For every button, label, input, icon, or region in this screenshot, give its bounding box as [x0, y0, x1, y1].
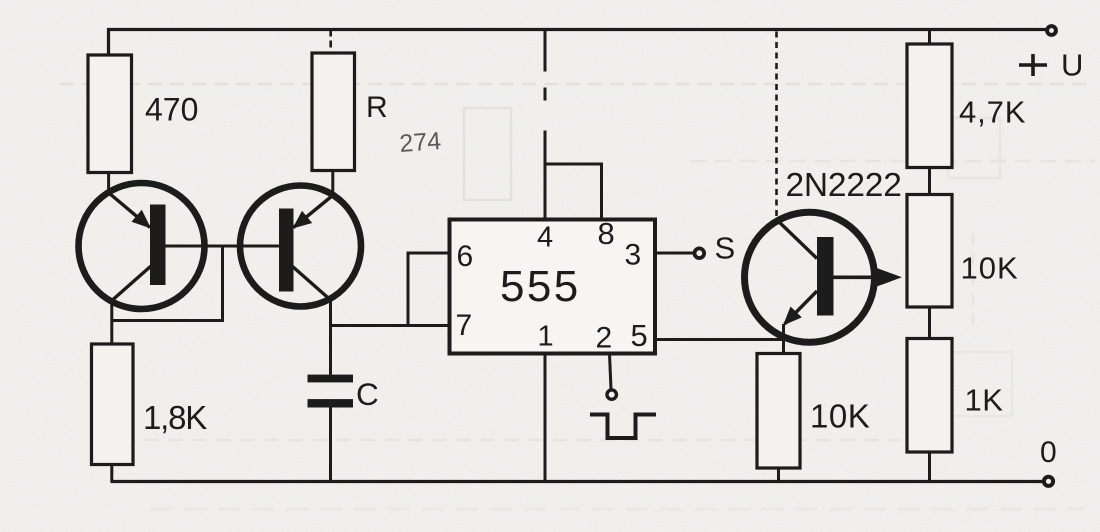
wire node Q1-emitter to base line (L)	[112, 246, 223, 321]
transistor Q3 collector lead	[777, 220, 818, 259]
terminal S	[695, 248, 705, 258]
wire node C to 555 pin 7	[331, 324, 450, 327]
transistor Q1 circle	[79, 183, 205, 309]
wire Q2 emitter to capacitor	[329, 298, 332, 375]
resistor 10K lower	[757, 354, 800, 469]
transistor Q2 emitter lead	[292, 266, 330, 300]
ghost bleed-through band right	[690, 160, 1095, 162]
transistor Q1 base bar	[150, 205, 166, 286]
transistor Q3 2N2222 circle	[745, 212, 875, 342]
transistor Q2 arrow	[293, 211, 313, 229]
capacitor C bottom plate	[308, 399, 354, 407]
transistor Q1 collector lead	[110, 194, 151, 228]
svg-text:1K: 1K	[965, 383, 1004, 418]
wire 470 to Q1 collector	[107, 173, 110, 197]
svg-text:U: U	[1061, 48, 1083, 83]
svg-text:4,7K: 4,7K	[959, 95, 1026, 130]
label +U plus sign	[1019, 54, 1047, 76]
resistor 10K right	[907, 195, 952, 308]
IC 555 box	[450, 220, 656, 354]
svg-text:8: 8	[598, 216, 615, 251]
svg-text:6: 6	[457, 240, 474, 273]
dashed wire rail to Q3 collector	[775, 32, 778, 218]
wire rail to pin 4	[544, 30, 547, 220]
svg-text:S: S	[715, 231, 736, 266]
pulse symbol	[590, 415, 656, 439]
transistor Q2 base bar	[279, 209, 294, 292]
terminal pin 2	[607, 390, 616, 399]
transistor Q3 base bar	[817, 237, 834, 316]
wire 4,7K to 10K	[928, 168, 931, 195]
wire base line Q1-Q2	[166, 245, 280, 248]
wire pin 1 to 0 rail	[544, 354, 547, 482]
ghost vertical right	[972, 233, 974, 332]
svg-text:3: 3	[625, 239, 642, 272]
wire 555 pin 6 jog	[408, 253, 450, 326]
wire Q3 emitter down	[782, 324, 785, 354]
resistor 1K	[907, 339, 952, 453]
svg-text:274: 274	[398, 127, 442, 158]
wire rail to R	[329, 30, 332, 54]
ghost bleed-through band bottom	[150, 508, 1085, 511]
terminal 0	[1044, 477, 1053, 486]
svg-text:10K: 10K	[810, 398, 870, 435]
svg-text:C: C	[356, 376, 379, 412]
wire Q1 emitter to 1.8K	[110, 298, 113, 344]
wire pin 8 jog	[545, 164, 602, 220]
svg-text:555: 555	[500, 262, 581, 311]
ghost bleed-through band top	[60, 83, 1093, 86]
transistor Q1 arrow	[132, 210, 152, 229]
wire 10K lower to 0 rail	[777, 468, 780, 482]
svg-text:1: 1	[538, 321, 554, 353]
wire pin 3 to S	[655, 252, 694, 255]
resistor 1,8K	[92, 344, 134, 465]
svg-text:2N2222: 2N2222	[786, 167, 902, 204]
wire pin 2 stub	[610, 354, 612, 390]
bottom 0 rail	[111, 480, 1044, 483]
wire pin 5 to Q3 emitter node	[655, 338, 784, 341]
terminal +U	[1047, 26, 1056, 35]
transistor Q1 emitter lead	[113, 266, 151, 300]
svg-text:5: 5	[631, 318, 648, 353]
wire rail to 4,7K	[928, 30, 931, 45]
transistor Q3 emitter arrow	[783, 307, 802, 326]
ghost rectangle left of 555	[464, 108, 511, 200]
svg-text:0: 0	[1040, 436, 1057, 469]
transistor Q3 output arrow head	[876, 268, 902, 287]
wire capacitor to 0 rail	[329, 408, 332, 482]
svg-text:1,8K: 1,8K	[143, 399, 207, 436]
ghost rectangle bottom right	[952, 352, 1012, 416]
svg-text:2: 2	[596, 322, 613, 355]
svg-text:10K: 10K	[961, 251, 1019, 286]
svg-text:7: 7	[456, 309, 473, 342]
resistor R	[312, 53, 355, 171]
wire 1K to 0 rail	[928, 452, 931, 482]
transistor Q2 collector lead	[294, 196, 333, 228]
wire 1.8K to 0 rail	[110, 465, 113, 482]
wire R to Q2 collector	[331, 171, 334, 199]
transistor Q3 emitter lead	[785, 291, 818, 324]
transistor Q2 circle	[240, 186, 361, 307]
transistor Q3 output arrow shaft	[834, 275, 879, 279]
svg-text:R: R	[366, 91, 388, 124]
wire 10K to 1K	[928, 307, 931, 339]
svg-text:4: 4	[537, 222, 553, 254]
ghost rectangle top right	[948, 118, 1000, 178]
resistor 4,7K	[907, 44, 952, 168]
capacitor C top plate	[308, 375, 354, 383]
resistor 470	[88, 55, 132, 173]
top +U supply rail	[109, 30, 1048, 56]
ghost bleed-through band mid	[120, 439, 900, 441]
svg-text:470: 470	[145, 92, 198, 128]
